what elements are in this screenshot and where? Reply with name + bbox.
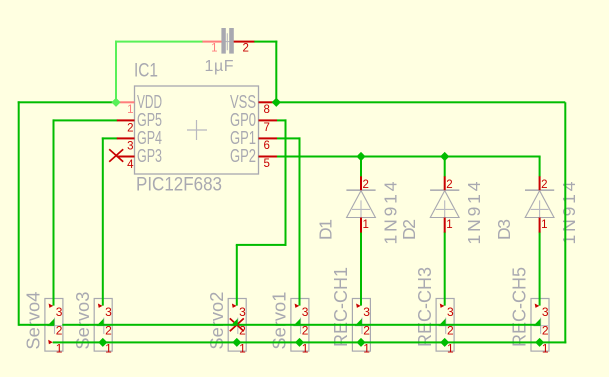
wire GP0 net: vertical segment (285, 119, 287, 245)
diode D2 cathode pin stub (444, 176, 446, 190)
svg-text:6: 6 (264, 140, 270, 152)
connector Servo4 body box (45, 299, 63, 352)
diode D1 cathode bar (346, 189, 375, 191)
svg-text:3: 3 (239, 305, 246, 319)
svg-text:REC-CH3: REC-CH3 (415, 267, 435, 347)
connector Servo2 body box (228, 299, 246, 352)
wire GP2 net: vertical into D1 cathode (360, 157, 362, 177)
svg-text:2: 2 (446, 179, 452, 191)
wire GP1 net: vertical down to Servo1 pin 3 (299, 137, 301, 305)
svg-text:IC1: IC1 (134, 61, 158, 82)
svg-text:GP1: GP1 (230, 128, 256, 148)
svg-text:1: 1 (56, 341, 63, 355)
no-connect cross on Servo2 pin 2 (230, 318, 244, 331)
capacitor C1 origin cross (220, 33, 235, 50)
svg-text:Servo4: Servo4 (24, 292, 44, 350)
svg-text:3: 3 (302, 305, 309, 319)
connector Servo2 origin cross (231, 318, 246, 334)
IC pin 6 stub (GP1) (259, 137, 278, 139)
svg-text:2: 2 (302, 323, 309, 337)
junction VDD net at IC pin 1 (highlighted) (111, 98, 120, 107)
svg-text:3: 3 (105, 305, 112, 319)
connector REC-CH1 body box (352, 299, 370, 352)
junction pin-1 bus at Servo1 pin 1 (295, 338, 304, 347)
pin-2 connection wedge at Servo2 pin 2 (231, 319, 238, 326)
wire VDD net: far-left vertical down (18, 101, 20, 325)
pin-2 connection wedge at Servo3 pin 2 (97, 319, 104, 326)
connector REC-CH3 pin 3 connection arrow (440, 304, 445, 308)
svg-text:2: 2 (105, 323, 112, 337)
svg-text:D3: D3 (494, 219, 514, 240)
svg-text:Servo3: Servo3 (73, 292, 93, 350)
svg-text:1: 1 (446, 219, 452, 231)
svg-text:3: 3 (56, 305, 63, 319)
svg-text:D1: D1 (316, 219, 336, 240)
IC pin 3 stub (GP4) (117, 137, 135, 139)
svg-text:2: 2 (363, 323, 370, 337)
diode D1 triangle (347, 191, 376, 218)
svg-text:2: 2 (541, 179, 547, 191)
junction pin-1 bus at REC-CH5 pin 1 (535, 338, 544, 347)
svg-text:D2: D2 (399, 219, 419, 240)
diode D1 origin cross (352, 200, 370, 218)
svg-text:PIC12F683: PIC12F683 (136, 174, 222, 196)
svg-text:3: 3 (447, 305, 454, 319)
wire D3 anode to REC-CH5 pin 3 (539, 232, 541, 306)
wire VSS net: from capacitor pin 2 (254, 41, 277, 43)
wire pin-2 power bus from Servo4 box edge to REC-CH5 pin 2 (62, 324, 540, 326)
svg-text:REC-CH1: REC-CH1 (331, 267, 351, 347)
junction VSS net at IC pin 8 (272, 98, 281, 107)
wire GP0 net: horizontal from IC pin 7 (277, 119, 287, 121)
svg-text:5: 5 (264, 158, 270, 170)
IC pin 1 stub (VDD, highlighted) (117, 101, 135, 103)
svg-text:Servo1: Servo1 (270, 292, 290, 350)
junction GP2 net at D2 (440, 152, 449, 161)
capacitor C1 pin 2 stub (234, 41, 255, 43)
svg-text:2: 2 (127, 122, 133, 134)
wire GP2 net: horizontal bus to diodes (277, 156, 541, 158)
svg-text:VDD: VDD (137, 92, 162, 112)
connector REC-CH3 body box (436, 299, 454, 352)
wire GP1 net: horizontal from IC pin 6 (277, 137, 301, 139)
diode D2 origin cross (436, 200, 454, 218)
connector Servo2 pin 3 connection arrow (232, 304, 237, 308)
svg-text:1N914: 1N914 (559, 181, 579, 244)
svg-text:GP4: GP4 (137, 128, 162, 148)
pin-2 connection wedge at REC-CH5 pin 2 (533, 319, 540, 326)
wire VSS net: horizontal from VSS junction to right (276, 101, 565, 103)
junction pin-1 bus at Servo2 pin 1 (232, 338, 241, 347)
connector REC-CH5 pin 3 connection arrow (535, 304, 540, 308)
IC pin 5 stub (GP2) (259, 156, 278, 158)
junction GP2 net at D1 (356, 152, 365, 161)
svg-text:1: 1 (127, 104, 133, 116)
IC pin 7 stub (GP0) (259, 119, 278, 121)
junction pin-1 bus at REC-CH3 pin 1 (440, 338, 449, 347)
wire VSS net: right-side vertical drop (564, 102, 566, 343)
svg-text:8: 8 (264, 104, 270, 116)
capacitor C1 pin 1 stub (highlighted) (202, 41, 221, 43)
pin-2 connection wedge at Servo1 pin 2 (293, 319, 300, 326)
connector Servo1 origin cross (293, 318, 308, 334)
pin-2 connection wedge at REC-CH3 pin 2 (439, 319, 446, 326)
connector REC-CH5 origin cross (533, 318, 548, 334)
IC pin 8 stub (VSS) (259, 101, 277, 103)
wire VDD net: bright horizontal to capacitor pin 1 (115, 41, 203, 43)
svg-text:2: 2 (447, 323, 454, 337)
svg-text:REC-CH5: REC-CH5 (510, 267, 530, 347)
diode D1 cathode pin stub (360, 176, 362, 190)
connector REC-CH3 origin cross (439, 318, 454, 334)
svg-text:GP0: GP0 (230, 110, 256, 130)
diode D3 anode pin stub (539, 218, 541, 233)
diode D3 triangle (525, 191, 554, 218)
svg-text:2: 2 (56, 323, 63, 337)
diode D2 cathode bar (430, 189, 459, 191)
svg-text:3: 3 (542, 305, 549, 319)
svg-text:GP5: GP5 (137, 110, 162, 130)
wire pin-1 bus from Servo4 pin 1 to right drop (53, 341, 567, 343)
wire GP5 net: horizontal from IC pin 2 (53, 119, 118, 121)
svg-text:1N914: 1N914 (464, 181, 484, 244)
pin-2 connection wedge at Servo4 pin 2 (47, 319, 54, 326)
wire VSS net: vertical from cap pin 2 down to VSS pin (275, 41, 277, 103)
capacitor C1 right plate (229, 28, 234, 54)
diode D3 cathode pin stub (539, 176, 541, 190)
connector Servo1 pin 3 connection arrow (295, 304, 300, 308)
junction pin-1 bus at Servo3 pin 1 (98, 338, 107, 347)
svg-text:7: 7 (264, 122, 270, 134)
connector Servo3 body box (94, 299, 112, 352)
IC pin 4 stub (GP3) (117, 156, 135, 158)
wire D2 anode to REC-CH3 pin 3 (444, 232, 446, 306)
diode D3 origin cross (531, 200, 549, 218)
wire VDD net: bright vertical at x116 (115, 41, 117, 104)
wire GP0 net: horizontal jog (236, 244, 287, 246)
svg-text:3: 3 (127, 140, 133, 152)
svg-text:GP3: GP3 (137, 146, 162, 166)
junction pin-1 bus at REC-CH1 pin 1 (357, 338, 366, 347)
svg-text:2: 2 (243, 42, 249, 54)
wire GP2 net: vertical into D2 cathode (444, 157, 446, 177)
svg-text:1µF: 1µF (205, 58, 234, 75)
connector Servo4 origin cross (47, 318, 62, 334)
svg-text:4: 4 (127, 159, 134, 171)
svg-text:Servo2: Servo2 (207, 292, 227, 350)
wire D1 anode to REC-CH1 pin 3 (360, 232, 362, 306)
no-connect cross on IC pin 4 (GP3) (109, 149, 123, 161)
diode D2 anode pin stub (444, 218, 446, 233)
IC pin 2 stub (GP5) (117, 119, 135, 121)
connector REC-CH1 origin cross (355, 318, 370, 334)
diode D2 triangle (430, 191, 459, 218)
connector REC-CH1 pin 3 connection arrow (356, 304, 361, 308)
svg-text:2: 2 (542, 323, 549, 337)
svg-text:3: 3 (363, 305, 370, 319)
svg-text:GP2: GP2 (230, 146, 256, 166)
svg-text:1: 1 (541, 219, 547, 231)
wire GP4 net: horizontal from IC pin 3 (102, 137, 118, 139)
wire GP2 net: vertical into D3 cathode (539, 157, 541, 177)
svg-text:1: 1 (363, 219, 369, 231)
connector Servo3 pin 3 connection arrow (98, 304, 103, 308)
connector Servo1 body box (291, 299, 309, 352)
diode D3 cathode bar (525, 189, 554, 191)
wire GP4 net: vertical down to Servo3 pin 3 (102, 137, 104, 305)
diode D1 anode pin stub (360, 218, 362, 233)
connector Servo4 pin 3 connection arrow (49, 304, 54, 308)
wire GP5 net: vertical down to Servo4 pin 3 (53, 119, 55, 305)
svg-text:1: 1 (211, 42, 217, 54)
wire VDD net: horizontal into Servo4 pin 2 (19, 324, 55, 326)
capacitor C1 left plate (221, 28, 225, 54)
op-amp-style IC body U1 (PIC12F683) box (135, 86, 259, 174)
pin-2 connection wedge at REC-CH1 pin 2 (355, 319, 362, 326)
IC1 origin cross (187, 120, 207, 140)
wire VDD net: horizontal from junction to far left (18, 101, 116, 103)
svg-text:VSS: VSS (230, 92, 256, 112)
svg-text:2: 2 (363, 179, 369, 191)
connector REC-CH5 body box (531, 299, 549, 352)
wire GP0 net: vertical down to Servo2 pin 3 (236, 245, 238, 306)
svg-text:1N914: 1N914 (381, 181, 401, 244)
connector Servo4 pin 1 connection arrow (48, 340, 53, 345)
connector Servo3 origin cross (97, 318, 112, 334)
